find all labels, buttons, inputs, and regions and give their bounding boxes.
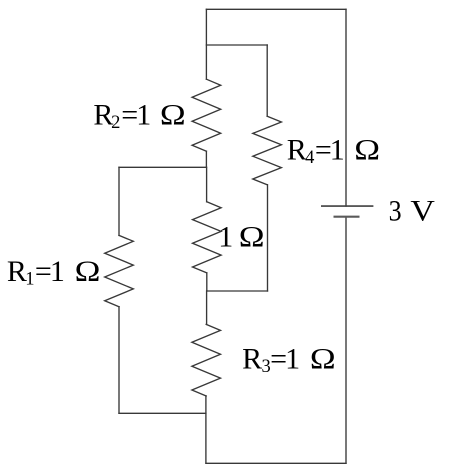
node A horizontal wire to R1 branch — [119, 166, 206, 168]
wire R1 top lead — [118, 167, 120, 235]
svg-text:R1=1Ω: R1=1Ω — [7, 255, 101, 290]
wire R2 top lead — [205, 9, 207, 79]
node B horizontal wire to R4 bottom — [207, 290, 268, 292]
resistor R4 zigzag — [253, 116, 282, 184]
wire R1 bottom lead — [118, 307, 120, 414]
svg-text:3V: 3V — [389, 195, 436, 228]
resistor R1 zigzag — [105, 235, 134, 306]
resistor 1 ohm (middle) zigzag — [193, 202, 222, 273]
battery V1 positive plate (long) — [321, 205, 373, 207]
resistor R2 zigzag — [192, 79, 221, 151]
wire R3 bottom lead to bottom rail — [205, 396, 207, 463]
wire bottom horizontal rail — [206, 462, 346, 464]
wire middle resistor bottom lead to node B — [206, 273, 208, 291]
svg-text:R4=1Ω: R4=1Ω — [287, 134, 380, 169]
wire R2 bottom lead to node A — [205, 151, 207, 167]
svg-text:R3=1Ω: R3=1Ω — [242, 343, 336, 378]
wire middle resistor top lead — [206, 167, 208, 202]
wire R4 top lead — [266, 45, 268, 116]
svg-text:R2=1Ω: R2=1Ω — [93, 98, 185, 132]
wire R3 top lead — [206, 291, 208, 324]
wire R1 bottom horizontal to node C — [119, 412, 206, 414]
wire right vertical lower (battery - to bottom rail) — [345, 217, 347, 464]
battery V1 negative plate (short) — [334, 216, 360, 218]
wire top horizontal (node from R2 top to battery +) — [206, 8, 346, 10]
svg-text:1Ω: 1Ω — [218, 220, 264, 253]
resistor R3 zigzag — [192, 324, 221, 396]
wire R4 bottom lead — [267, 185, 269, 291]
wire right vertical upper (to battery + plate) — [345, 9, 347, 206]
wire branch horizontal to R4 — [206, 44, 267, 46]
